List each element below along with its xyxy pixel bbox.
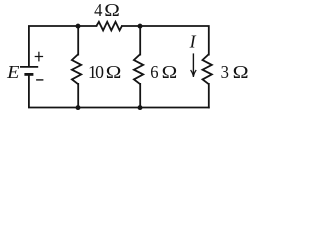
wire 6-ohm branch top stub [139, 26, 141, 55]
wire 6-ohm branch bottom stub [139, 84, 141, 108]
battery minus sign [36, 79, 43, 81]
svg-text:Ω: Ω [106, 62, 122, 82]
svg-text:3: 3 [221, 62, 229, 82]
wire top segment between 4-ohm resistor and top-right corner, down right side to 3-ohm resistor [122, 26, 209, 55]
svg-text:6: 6 [150, 62, 158, 82]
current I arrow (downward) [191, 53, 197, 77]
svg-text:Ω: Ω [104, 0, 120, 20]
resistor 4 ohm (horizontal zigzag, top wire) [96, 22, 122, 31]
svg-text:E: E [6, 62, 19, 82]
battery source E: long positive plate [20, 66, 38, 68]
wire right side below 3-ohm resistor [208, 84, 210, 108]
wire from battery bottom plate down and bottom wire [29, 75, 209, 108]
node junction dot bottom of 6-ohm branch [138, 105, 143, 110]
battery plus sign [35, 52, 43, 62]
svg-text:I: I [189, 31, 197, 51]
svg-text:Ω: Ω [233, 62, 249, 82]
wire top-left segment and left wire down to battery top plate [29, 26, 97, 66]
node junction dot bottom of 10-ohm branch [76, 105, 81, 110]
resistor 3 ohm (vertical zigzag) [203, 54, 212, 84]
wire 10-ohm branch bottom stub [77, 84, 79, 108]
node junction dot top of 10-ohm branch [76, 24, 81, 29]
resistor 10 ohm (vertical zigzag) [72, 54, 81, 84]
svg-text:4: 4 [94, 0, 102, 20]
resistor 6 ohm (vertical zigzag) [134, 54, 143, 84]
svg-text:10: 10 [88, 62, 104, 82]
wire 10-ohm branch top stub [77, 26, 79, 55]
battery source E: short negative plate [24, 73, 33, 76]
node junction dot top of 6-ohm branch [138, 24, 143, 29]
svg-text:Ω: Ω [162, 62, 178, 82]
